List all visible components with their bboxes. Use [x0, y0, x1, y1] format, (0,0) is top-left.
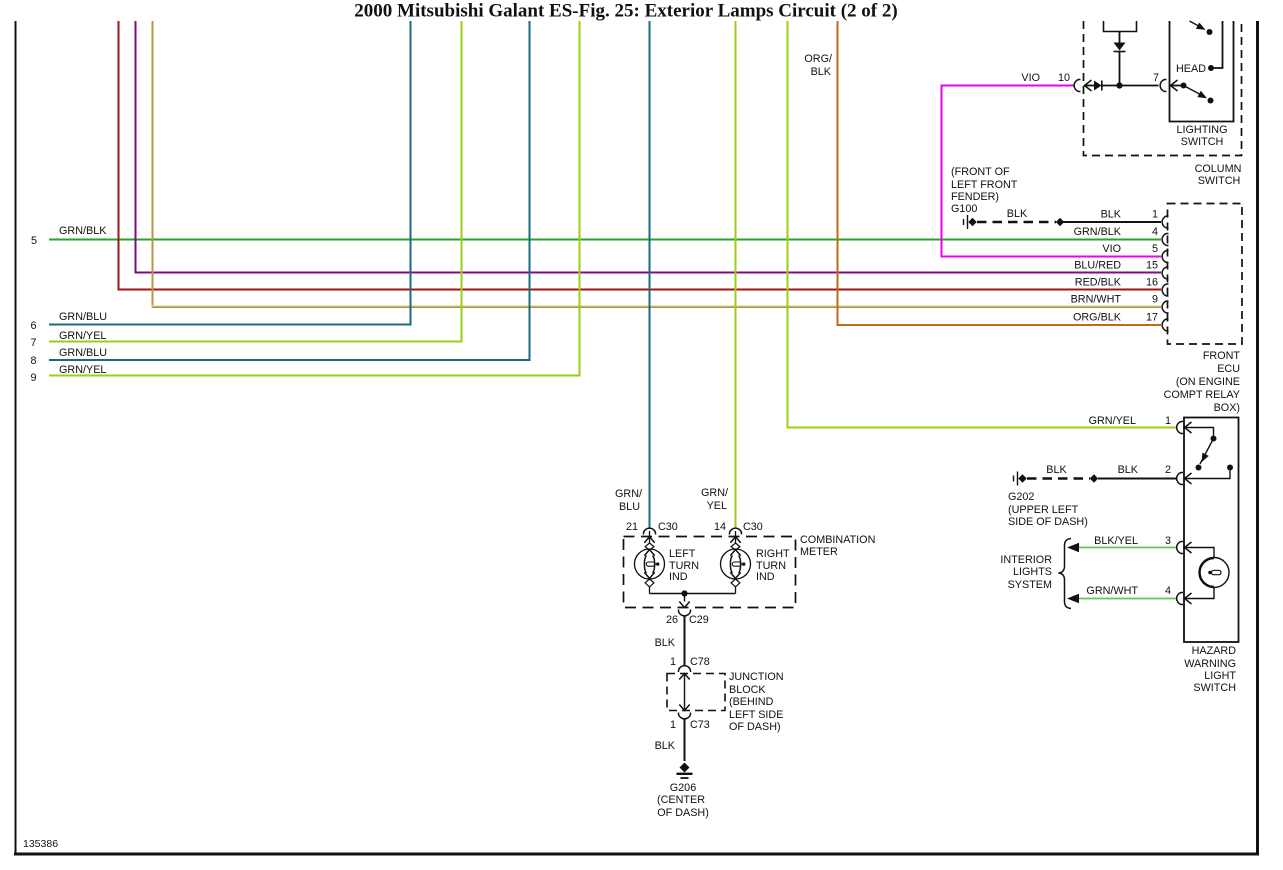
label GRN/YEL hazard: [1089, 415, 1136, 427]
connector ECU pin 17: [1162, 319, 1168, 331]
connector pin 7: [1160, 80, 1177, 92]
svg-text:8: 8: [30, 355, 36, 367]
label GRN/BLU 8: [59, 347, 107, 359]
svg-text:HEAD: HEAD: [1176, 63, 1206, 75]
connector C29: [679, 610, 691, 616]
svg-text:BLK: BLK: [811, 66, 832, 78]
label GRN/YEL meter: [701, 487, 728, 512]
wire D1 to pin 7: [1102, 85, 1159, 87]
svg-text:GRN/: GRN/: [615, 488, 642, 500]
svg-text:SWITCH: SWITCH: [1193, 682, 1236, 694]
svg-text:LIGHTING: LIGHTING: [1177, 124, 1228, 136]
label BLK/YEL: [1094, 535, 1138, 547]
border frame left: [15, 21, 17, 854]
label BLK dashed G100: [1007, 208, 1028, 220]
svg-text:LIGHT: LIGHT: [1204, 670, 1236, 682]
svg-text:FENDER): FENDER): [951, 191, 999, 203]
wire diode to junction: [1119, 52, 1121, 86]
hazard switch box: [1184, 418, 1239, 643]
meter pin 14 label: [714, 521, 763, 533]
svg-text:GRN/BLK: GRN/BLK: [59, 225, 107, 237]
connector meter pin 21: [644, 528, 656, 534]
label INTERIOR LIGHTS SYSTEM: [1000, 554, 1052, 591]
lighting switch arm lower: [1185, 86, 1214, 104]
svg-text:INTERIOR: INTERIOR: [1000, 554, 1052, 566]
svg-text:LIGHTS: LIGHTS: [1013, 566, 1052, 578]
diode D2 vertical: [1114, 43, 1126, 52]
label HEAD: [1176, 63, 1206, 75]
title: [354, 1, 897, 22]
svg-text:BLK: BLK: [1007, 208, 1028, 220]
svg-text:C29: C29: [689, 614, 709, 626]
svg-text:4: 4: [1165, 585, 1171, 597]
label RED/BLK pin 16: [1075, 277, 1158, 289]
svg-text:YEL: YEL: [707, 500, 727, 512]
node 9 label: [30, 372, 36, 384]
junction block dashed box: [667, 674, 725, 711]
svg-text:2: 2: [1165, 464, 1171, 476]
meter bottom wire: [650, 593, 736, 595]
svg-text:1: 1: [670, 656, 676, 668]
wire BLK dashed G100: [977, 221, 1056, 224]
svg-text:BLU: BLU: [619, 501, 640, 513]
svg-text:VIO: VIO: [1102, 243, 1121, 255]
connector ECU pin 1: [1162, 216, 1168, 228]
svg-text:C78: C78: [690, 656, 710, 668]
label BLK pin 1: [1101, 209, 1158, 221]
node 5 label: [31, 235, 37, 247]
svg-text:C30: C30: [658, 521, 678, 533]
label BLK hazard: [1118, 464, 1139, 476]
svg-text:HAZARD: HAZARD: [1192, 645, 1237, 657]
wire BLK/YEL arrow: [1067, 543, 1177, 553]
wire GRN/BLU (8): [49, 21, 530, 360]
wire VIO to ECU pin 5: [942, 86, 1162, 257]
border frame right: [1256, 21, 1259, 856]
wire GRN/YEL (9): [49, 21, 580, 376]
connector hazard pin 2: [1177, 473, 1192, 485]
label BLK upper: [655, 637, 676, 649]
lamp LEFT TURN IND: [635, 531, 665, 594]
bracket join above diode: [1104, 21, 1137, 32]
diode D1 horizontal: [1094, 81, 1102, 91]
node 7 label: [30, 337, 36, 349]
label COMBINATION METER: [800, 534, 875, 558]
svg-text:WARNING: WARNING: [1184, 658, 1236, 670]
svg-text:2000 Mitsubishi Galant ES-Fig.: 2000 Mitsubishi Galant ES-Fig. 25: Exter…: [354, 1, 897, 22]
svg-text:BRN/WHT: BRN/WHT: [1071, 294, 1122, 306]
wire GRN/BLU to meter pin 21: [649, 21, 651, 528]
svg-text:5: 5: [31, 235, 37, 247]
svg-text:GRN/: GRN/: [701, 487, 728, 499]
svg-text:ECU: ECU: [1217, 363, 1240, 375]
G100 note: [951, 166, 1018, 215]
svg-text:BLOCK: BLOCK: [729, 684, 766, 696]
wire bracket to diode: [1119, 32, 1121, 44]
hazard pin 3 label: [1165, 535, 1171, 547]
svg-text:26: 26: [666, 614, 678, 626]
svg-text:16: 16: [1146, 277, 1158, 289]
svg-text:GRN/WHT: GRN/WHT: [1086, 585, 1138, 597]
label GRN/BLU meter: [615, 488, 642, 513]
svg-text:G100: G100: [951, 203, 977, 215]
label HAZARD WARNING LIGHT SWITCH: [1184, 645, 1236, 694]
connector pin 10: [1074, 80, 1091, 92]
front ECU dashed box: [1168, 204, 1243, 345]
label BLK dashed G202: [1046, 464, 1067, 476]
column switch dashed box: [1084, 21, 1242, 156]
svg-text:LEFT: LEFT: [669, 548, 696, 560]
svg-text:BLK: BLK: [655, 740, 676, 752]
svg-text:RIGHT: RIGHT: [756, 548, 790, 560]
svg-text:GRN/BLU: GRN/BLU: [59, 311, 107, 323]
meter junction dot: [681, 590, 687, 596]
connector meter pin 14: [730, 528, 742, 534]
hazard switch contact: [1185, 465, 1233, 479]
svg-text:RED/BLK: RED/BLK: [1075, 277, 1122, 289]
svg-text:BOX): BOX): [1214, 402, 1240, 414]
label BLK lower: [655, 740, 676, 752]
wire GRN/WHT arrow: [1067, 594, 1177, 604]
svg-text:ORG/BLK: ORG/BLK: [1073, 312, 1122, 324]
lighting switch box: [1170, 21, 1234, 122]
svg-text:METER: METER: [800, 546, 838, 558]
svg-text:LEFT SIDE: LEFT SIDE: [729, 709, 783, 721]
combination meter dashed box: [624, 537, 796, 608]
svg-text:IND: IND: [756, 571, 775, 583]
svg-text:1: 1: [670, 719, 676, 731]
connector ECU pin 16: [1162, 284, 1168, 296]
svg-text:JUNCTION: JUNCTION: [729, 671, 784, 683]
wire RED/BLK to ECU pin 16: [119, 21, 1162, 290]
svg-text:6: 6: [30, 320, 36, 332]
junction block inner wire: [679, 674, 689, 711]
junction pin 1 C78 label: [670, 656, 710, 668]
svg-text:9: 9: [1152, 294, 1158, 306]
svg-text:(UPPER LEFT: (UPPER LEFT: [1008, 504, 1079, 516]
svg-text:GRN/YEL: GRN/YEL: [59, 364, 106, 376]
svg-text:(CENTER: (CENTER: [657, 794, 705, 806]
svg-text:GRN/BLK: GRN/BLK: [1074, 226, 1122, 238]
wire BLU/RED to ECU pin 15: [136, 21, 1162, 273]
label ORG/BLK vertical: [804, 53, 832, 78]
svg-text:BLK: BLK: [1118, 464, 1139, 476]
wire pin7 contact: [1171, 83, 1187, 89]
svg-text:G206: G206: [670, 782, 696, 794]
svg-text:15: 15: [1146, 260, 1158, 272]
G206 note: [657, 782, 709, 819]
svg-text:GRN/YEL: GRN/YEL: [59, 330, 106, 342]
wire head contact: [1214, 21, 1223, 68]
label GRN/BLU 6: [59, 311, 107, 323]
wire BLK to ECU pin 1: [1063, 221, 1161, 223]
svg-text:COLUMN: COLUMN: [1195, 163, 1242, 175]
wire ORG/BLK to ECU pin 17: [838, 21, 1162, 325]
connector ECU pin 4: [1162, 234, 1168, 246]
svg-text:17: 17: [1146, 312, 1158, 324]
svg-text:SWITCH: SWITCH: [1198, 175, 1241, 187]
svg-text:5: 5: [1152, 243, 1158, 255]
wire meter to C29: [679, 594, 689, 608]
label LIGHTING SWITCH: [1177, 124, 1228, 148]
connector hazard pin 1: [1177, 422, 1192, 434]
label LEFT TURN IND: [669, 548, 699, 583]
head contact dot: [1208, 65, 1214, 71]
svg-text:3: 3: [1165, 535, 1171, 547]
label VIO: [1021, 72, 1040, 84]
G202 note: [1008, 491, 1088, 528]
svg-text:BLK: BLK: [1101, 209, 1122, 221]
border frame bottom: [14, 853, 1259, 856]
label GRN/YEL 7: [59, 330, 106, 342]
connector C78: [679, 666, 691, 672]
pin 7 label: [1153, 72, 1159, 84]
figure number 135386: [23, 838, 58, 850]
splice dot G202: [1090, 474, 1098, 482]
junction dot column switch: [1116, 82, 1122, 88]
wire BLK C29 to C78: [684, 617, 686, 667]
connector C73: [679, 713, 691, 719]
svg-text:VIO: VIO: [1021, 72, 1040, 84]
meter pin 26 label: [666, 614, 709, 626]
svg-text:1: 1: [1165, 415, 1171, 427]
connector hazard pin 4: [1177, 593, 1192, 605]
svg-text:ORG/: ORG/: [804, 53, 832, 65]
svg-text:BLK/YEL: BLK/YEL: [1094, 535, 1138, 547]
label GRN/BLK: [59, 225, 107, 237]
label GRN/WHT: [1086, 585, 1138, 597]
label ORG/BLK pin 17: [1073, 312, 1158, 324]
svg-text:GRN/YEL: GRN/YEL: [1089, 415, 1136, 427]
pin 10 label: [1058, 72, 1070, 84]
junction pin 1 C73 label: [670, 719, 710, 731]
hazard lamp wire bottom: [1185, 588, 1214, 599]
svg-text:IND: IND: [669, 571, 688, 583]
ground G100: [964, 215, 977, 229]
hazard switch arm: [1196, 441, 1213, 471]
label JUNCTION BLOCK: [729, 671, 784, 733]
splice dot G100: [1056, 218, 1064, 226]
hazard lamp: [1199, 558, 1229, 588]
svg-text:(FRONT OF: (FRONT OF: [951, 166, 1010, 178]
wire GRN/YEL (7): [49, 21, 462, 342]
svg-text:BLK: BLK: [655, 637, 676, 649]
svg-text:OF DASH): OF DASH): [657, 807, 709, 819]
label VIO pin 5: [1102, 243, 1158, 255]
hazard switch wire pin1: [1185, 428, 1217, 442]
svg-text:C73: C73: [690, 719, 710, 731]
label BLU/RED pin 15: [1074, 260, 1158, 272]
ground G206: [677, 763, 693, 779]
wire GRN/YEL to hazard pin 1: [788, 21, 1177, 428]
svg-text:C30: C30: [743, 521, 763, 533]
label RIGHT TURN IND: [756, 548, 790, 583]
svg-text:COMBINATION: COMBINATION: [800, 534, 875, 546]
lamp RIGHT TURN IND: [721, 531, 751, 594]
wire GRN/BLK (5) to ECU pin 4: [49, 239, 1161, 241]
label FRONT ECU: [1164, 350, 1241, 414]
node 8 label: [30, 355, 36, 367]
svg-text:21: 21: [626, 521, 638, 533]
label COLUMN SWITCH: [1195, 163, 1242, 187]
svg-text:7: 7: [30, 337, 36, 349]
svg-text:(BEHIND: (BEHIND: [729, 696, 774, 708]
svg-text:SWITCH: SWITCH: [1181, 136, 1224, 148]
svg-text:SIDE OF DASH): SIDE OF DASH): [1008, 516, 1088, 528]
wire GRN/BLU (6): [49, 21, 411, 325]
connector ECU pin 15: [1162, 267, 1168, 279]
svg-text:9: 9: [30, 372, 36, 384]
svg-text:14: 14: [714, 521, 726, 533]
hazard pin 2 label: [1165, 464, 1171, 476]
svg-text:G202: G202: [1008, 491, 1034, 503]
connector ECU pin 5: [1162, 251, 1168, 263]
wire BLK dashed G202: [1027, 477, 1090, 480]
meter pin 21 label: [626, 521, 678, 533]
svg-text:COMPT RELAY: COMPT RELAY: [1164, 389, 1240, 401]
svg-text:1: 1: [1152, 209, 1158, 221]
connector ECU pin 9: [1162, 301, 1168, 313]
svg-text:BLU/RED: BLU/RED: [1074, 260, 1121, 272]
svg-text:135386: 135386: [23, 838, 58, 850]
svg-text:(ON ENGINE: (ON ENGINE: [1176, 376, 1240, 388]
ground G202: [1014, 472, 1027, 486]
svg-text:10: 10: [1058, 72, 1070, 84]
svg-text:4: 4: [1152, 226, 1158, 238]
interior lights brace: [1059, 539, 1072, 609]
svg-text:7: 7: [1153, 72, 1159, 84]
hazard pin 4 label: [1165, 585, 1171, 597]
wire BLK to hazard pin 2: [1098, 478, 1177, 480]
wire pin10 to diode D1: [1085, 85, 1095, 87]
svg-text:BLK: BLK: [1046, 464, 1067, 476]
connector hazard pin 3: [1177, 542, 1192, 554]
label BRN/WHT pin 9: [1071, 294, 1158, 306]
svg-text:SYSTEM: SYSTEM: [1008, 579, 1052, 591]
hazard lamp wire top: [1185, 548, 1214, 558]
svg-text:FRONT: FRONT: [1203, 350, 1241, 362]
wire GRN/YEL to meter pin 14: [735, 21, 737, 528]
wire BLK C73 to ground: [684, 719, 686, 761]
lighting switch arm upper: [1190, 21, 1213, 35]
label GRN/YEL 9: [59, 364, 106, 376]
svg-text:OF DASH): OF DASH): [729, 721, 781, 733]
hazard pin 1 label: [1165, 415, 1171, 427]
label GRN/BLK pin 4: [1074, 226, 1158, 238]
wire BRN/WHT to ECU pin 9: [152, 21, 1162, 308]
svg-text:LEFT FRONT: LEFT FRONT: [951, 179, 1018, 191]
node 6 label: [30, 320, 36, 332]
svg-text:GRN/BLU: GRN/BLU: [59, 347, 107, 359]
